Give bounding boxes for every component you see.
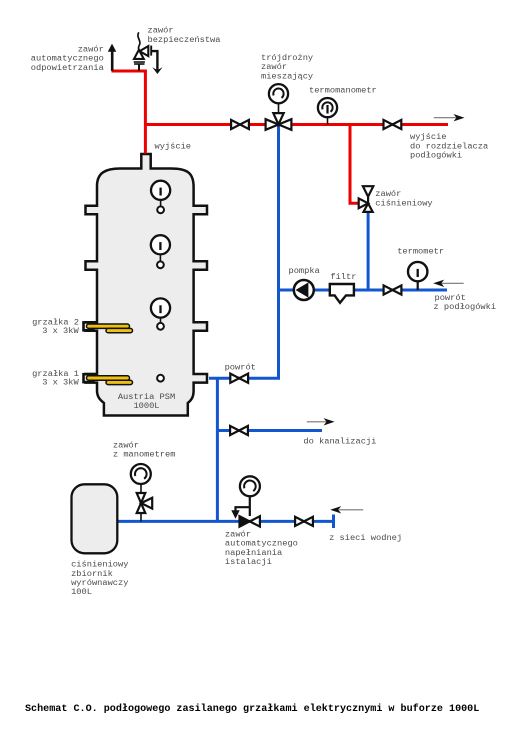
svg-text:podłogówki: podłogówki [410,151,462,161]
valve on red line left of mixer [231,120,249,129]
mixing valve actuator [278,104,280,113]
svg-text:1000L: 1000L [133,401,159,411]
svg-text:filtr: filtr [330,272,356,282]
wire blue from mixing valve down to return tee and tank return corner [209,126,279,378]
svg-text:mieszający: mieszający [261,71,313,81]
svg-text:100L: 100L [71,587,92,597]
wire red drop to pressure valve [350,125,359,204]
automatic filling valve [232,476,260,527]
filter [330,284,354,303]
svg-text:wyjście: wyjście [155,141,192,151]
svg-text:powrót: powrót [225,362,256,372]
valve on red line right [384,120,402,129]
wire blue return line from floor heating [279,289,448,292]
svg-text:termomanometr: termomanometr [309,86,377,96]
wire red vertical from safety group to tank neck [144,71,147,154]
wire red main supply line [145,123,448,126]
valve on tank return [230,374,248,383]
svg-text:3 x 3kW: 3 x 3kW [42,378,79,388]
valve to sewer [230,426,248,435]
svg-text:bezpieczeństwa: bezpieczeństwa [148,35,221,45]
heater grzalka 2 rods [87,324,130,328]
tank Austria PSM 1000L (outline with nozzle notches) [86,154,208,416]
heater grzalka 1 rods [87,376,130,380]
wire blue bottom fill line [117,520,334,523]
tank thermometer 3 [151,298,170,329]
thermometer on return [417,282,419,291]
svg-text:3 x 3kW: 3 x 3kW [42,326,79,336]
return entry arrow [433,280,464,287]
arrow out to floor distributor [434,114,465,121]
svg-text:do kanalizacji: do kanalizacji [303,436,376,446]
wire blue to sewer [217,429,322,432]
pressure valve [359,186,374,212]
valve on return line [384,285,402,294]
valve from water mains [295,517,313,526]
pump [294,280,314,300]
svg-text:pompka: pompka [289,266,320,276]
pipe end tick z sieci wodnej [332,515,335,529]
air vent arrow [108,44,117,71]
svg-text:termometr: termometr [397,247,444,257]
expansion vessel [72,484,118,553]
svg-text:istalacji: istalacji [225,557,272,567]
valve with manometer [131,464,152,521]
heater flange grzalka 2 [84,322,94,330]
svg-text:z manometrem: z manometrem [113,450,176,460]
tank thermometer 1 [151,181,170,214]
svg-text:ciśnieniowy: ciśnieniowy [375,198,432,208]
sewer arrow [307,418,335,425]
wire blue from pressure valve down to return line [367,211,370,291]
tank thermometer 2 [151,235,170,268]
wire blue down leg to bottom line [216,378,219,521]
thermomanometer [327,118,329,125]
heater flange grzalka 1 [84,374,94,382]
safety valve [134,32,163,74]
svg-text:odpowietrzania: odpowietrzania [31,63,104,73]
three-way mixing valve U [266,113,292,130]
svg-text:z podłogówki: z podłogówki [434,302,497,312]
water mains arrow [330,506,363,513]
wire red horizontal under air vent [112,70,147,73]
svg-text:Schemat C.O. podłogowego zasil: Schemat C.O. podłogowego zasilanego grza… [25,703,479,715]
tank sensor pocket 4 [157,375,164,382]
svg-text:z sieci wodnej: z sieci wodnej [329,533,402,543]
